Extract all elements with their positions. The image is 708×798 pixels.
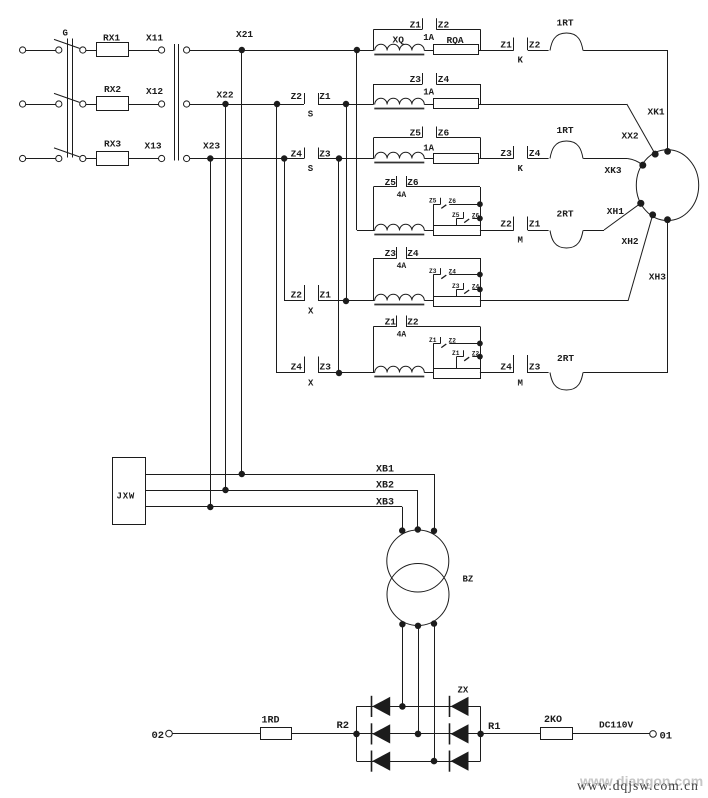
svg-text:Z2: Z2 xyxy=(529,40,541,51)
svg-text:M: M xyxy=(518,379,523,389)
svg-text:Z4: Z4 xyxy=(291,362,303,373)
svg-text:XK3: XK3 xyxy=(605,165,622,176)
svg-text:X21: X21 xyxy=(236,29,253,40)
svg-text:X13: X13 xyxy=(145,141,162,152)
svg-text:4A: 4A xyxy=(397,331,407,340)
svg-text:XQ: XQ xyxy=(393,35,405,46)
svg-text:4A: 4A xyxy=(397,262,407,271)
svg-text:DC110V: DC110V xyxy=(599,720,634,731)
svg-text:Z6: Z6 xyxy=(449,198,457,205)
svg-text:Z5: Z5 xyxy=(429,198,437,205)
svg-text:XX2: XX2 xyxy=(622,131,639,142)
svg-text:XK1: XK1 xyxy=(648,107,665,118)
svg-text:Z4: Z4 xyxy=(529,148,541,159)
svg-text:M: M xyxy=(518,236,523,246)
svg-text:JXW: JXW xyxy=(117,492,136,502)
svg-text:XH1: XH1 xyxy=(607,206,624,217)
svg-text:02: 02 xyxy=(152,730,165,742)
svg-text:Z2: Z2 xyxy=(291,290,303,301)
svg-text:Z5: Z5 xyxy=(452,212,460,219)
svg-text:Z6: Z6 xyxy=(407,177,419,188)
svg-text:Z5: Z5 xyxy=(385,177,397,188)
svg-text:1RT: 1RT xyxy=(557,125,574,136)
svg-text:X23: X23 xyxy=(203,141,220,152)
svg-text:S: S xyxy=(308,164,314,174)
svg-text:Z5: Z5 xyxy=(410,128,422,139)
svg-text:Z1: Z1 xyxy=(452,350,460,357)
svg-text:Z1: Z1 xyxy=(529,219,541,230)
svg-text:Z4: Z4 xyxy=(291,149,303,160)
svg-text:4A: 4A xyxy=(397,191,407,200)
svg-text:Z3: Z3 xyxy=(385,248,397,259)
svg-text:XH2: XH2 xyxy=(622,236,639,247)
svg-text:Z1: Z1 xyxy=(319,91,331,102)
svg-text:XB3: XB3 xyxy=(376,498,394,509)
svg-text:Z1: Z1 xyxy=(320,290,332,301)
svg-text:1A: 1A xyxy=(423,144,434,154)
svg-text:Z1: Z1 xyxy=(429,337,437,344)
svg-text:XH3: XH3 xyxy=(649,272,666,283)
svg-text:Z3: Z3 xyxy=(500,148,512,159)
svg-text:Z3: Z3 xyxy=(319,149,331,160)
svg-text:X12: X12 xyxy=(146,86,163,97)
svg-text:K: K xyxy=(518,56,524,66)
svg-text:1RT: 1RT xyxy=(557,18,574,29)
svg-text:2RT: 2RT xyxy=(557,353,574,364)
svg-text:X: X xyxy=(308,307,314,317)
svg-text:Z4: Z4 xyxy=(449,269,457,276)
svg-text:Z6: Z6 xyxy=(438,128,450,139)
svg-text:RX1: RX1 xyxy=(103,33,120,44)
svg-text:S: S xyxy=(308,110,314,120)
svg-text:RX2: RX2 xyxy=(104,84,121,95)
svg-text:Z1: Z1 xyxy=(385,317,397,328)
svg-text:R2: R2 xyxy=(337,720,350,732)
svg-text:X22: X22 xyxy=(217,90,234,101)
svg-text:XB2: XB2 xyxy=(376,481,394,492)
svg-text:X: X xyxy=(308,379,314,389)
svg-text:Z2: Z2 xyxy=(500,219,512,230)
svg-text:01: 01 xyxy=(660,731,673,743)
svg-text:Z3: Z3 xyxy=(529,362,541,373)
svg-text:X11: X11 xyxy=(146,33,163,44)
svg-text:Z4: Z4 xyxy=(500,362,512,373)
svg-text:Z3: Z3 xyxy=(452,283,460,290)
svg-text:G: G xyxy=(63,29,68,39)
svg-text:www.dqjsw.com.cn: www.dqjsw.com.cn xyxy=(577,778,699,793)
svg-text:Z1: Z1 xyxy=(410,19,422,30)
svg-text:Z1: Z1 xyxy=(500,40,512,51)
svg-text:RX3: RX3 xyxy=(104,139,121,150)
svg-text:Z2: Z2 xyxy=(291,91,303,102)
svg-text:Z2: Z2 xyxy=(449,337,457,344)
svg-text:1A: 1A xyxy=(423,88,434,98)
svg-text:Z4: Z4 xyxy=(438,74,450,85)
svg-text:ZX: ZX xyxy=(458,686,469,696)
svg-text:Z3: Z3 xyxy=(320,362,332,373)
svg-text:Z4: Z4 xyxy=(407,248,419,259)
svg-text:2RT: 2RT xyxy=(557,209,574,220)
svg-text:2KO: 2KO xyxy=(544,715,562,726)
svg-text:Z2: Z2 xyxy=(438,19,450,30)
svg-text:1A: 1A xyxy=(423,33,434,43)
svg-text:Z3: Z3 xyxy=(429,268,437,275)
svg-text:Z3: Z3 xyxy=(410,74,422,85)
svg-text:RQA: RQA xyxy=(447,35,464,46)
svg-text:1RD: 1RD xyxy=(262,716,280,727)
svg-text:XB1: XB1 xyxy=(376,465,394,476)
svg-text:K: K xyxy=(518,164,524,174)
svg-text:R1: R1 xyxy=(488,721,501,733)
svg-text:Z2: Z2 xyxy=(407,317,419,328)
svg-text:BZ: BZ xyxy=(463,575,474,585)
